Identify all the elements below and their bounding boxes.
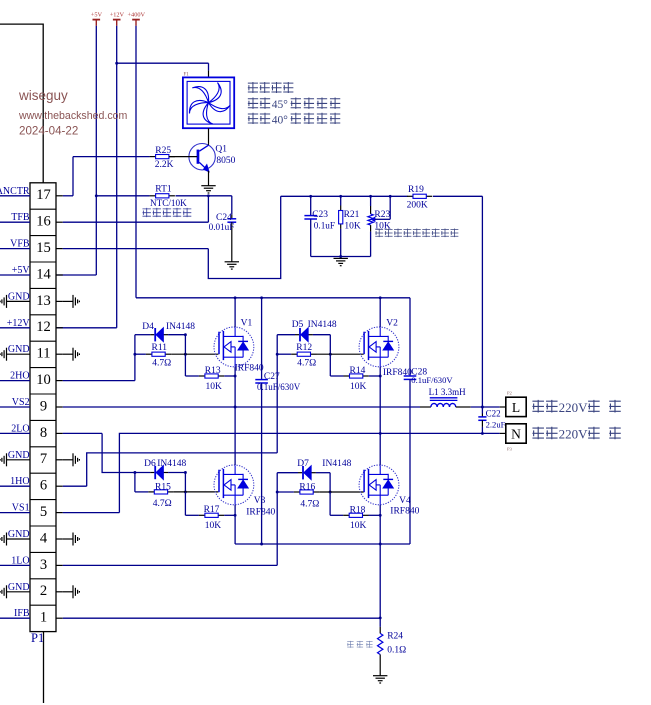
pin lead: [56, 591, 63, 593]
wire segment: [369, 356, 389, 358]
junction: [234, 375, 237, 378]
junction rail: [309, 195, 312, 198]
pin lead: [56, 380, 63, 382]
svg-text:10K: 10K: [350, 382, 367, 392]
wire: [313, 334, 330, 336]
wire segment: [430, 397, 458, 399]
svg-text:D6: D6: [144, 459, 156, 469]
pin lead: [295, 334, 299, 336]
pin lead: [343, 514, 349, 516]
wire +12V rail down: [116, 26, 118, 328]
text chinese: [291, 98, 301, 109]
wire VS1 route: [119, 433, 380, 512]
wire V2 source / V4 drain: [379, 367, 381, 465]
wire V1 drain: [234, 298, 236, 327]
pin lead: [169, 195, 175, 197]
pin lead: [3, 535, 5, 543]
wire segment: [223, 356, 243, 358]
pin lead: [56, 353, 63, 355]
wire: [481, 427, 483, 434]
wire: [135, 334, 150, 336]
text chinese: [609, 400, 621, 413]
pin fan bottom / Q1 collector: [208, 128, 210, 143]
wire segment: [234, 495, 236, 504]
mosfet V2 IRF840: [359, 327, 399, 367]
pin lead: [56, 564, 63, 566]
wire VFB route to divider: [208, 196, 280, 278]
pin lead: [407, 195, 413, 197]
wire segment: [227, 218, 236, 220]
pin lead: [340, 206, 342, 211]
wire segment: [376, 484, 380, 486]
pin lead: [311, 472, 316, 474]
wire: [0, 485, 30, 487]
terminal P2 L output: [506, 397, 526, 416]
junction +5V / RT1: [95, 194, 98, 197]
wire: [135, 491, 148, 493]
wire segment: [379, 485, 381, 495]
wire segment: [30, 208, 56, 210]
pin lead: [56, 617, 63, 619]
junction +12V fan feed: [115, 62, 118, 65]
wire: [409, 379, 411, 544]
pin lead: [336, 260, 345, 262]
svg-text:3: 3: [40, 557, 47, 573]
svg-text:IN4148: IN4148: [322, 459, 351, 469]
wire: [0, 432, 30, 434]
junction: [276, 353, 279, 356]
wire segment: [132, 19, 140, 21]
wire segment: [30, 578, 56, 580]
wire segment: [223, 335, 243, 337]
pin lead: [340, 265, 342, 267]
junction: [184, 490, 187, 493]
pin lead: [338, 262, 343, 264]
svg-text:2.2K: 2.2K: [155, 160, 174, 170]
pin lead: [77, 352, 79, 356]
wire +5V to pin14: [56, 274, 96, 276]
wire VS1 pin5: [63, 512, 120, 514]
pin lead: [7, 300, 31, 302]
wire: [184, 473, 186, 492]
pin lead: [165, 353, 171, 355]
wire segment: [255, 379, 268, 381]
wire: [224, 514, 235, 516]
wire +12V to fan: [117, 62, 209, 64]
wire segment: [430, 399, 458, 401]
wire segment: [135, 20, 137, 26]
inductor L1 3.3mH: [431, 403, 437, 407]
svg-text:8: 8: [40, 425, 47, 441]
svg-text:0.01uF: 0.01uF: [209, 222, 235, 232]
pin lead: [225, 261, 239, 263]
pin lead: [63, 538, 73, 540]
svg-text:R12: R12: [296, 343, 312, 353]
pin lead: [340, 224, 342, 229]
wire: [316, 472, 330, 474]
wire segment: [379, 327, 381, 336]
wire segment: [387, 336, 389, 342]
svg-text:12: 12: [36, 319, 51, 335]
resistor R24 0.1ohm shunt: [378, 633, 383, 654]
wire segment: [242, 350, 244, 357]
wire 2HO riser: [134, 335, 136, 381]
wire: [329, 335, 331, 355]
pin lead: [231, 222, 233, 262]
svg-text:C27: C27: [264, 372, 280, 382]
pin lead: [379, 655, 381, 676]
svg-text:8050: 8050: [216, 156, 235, 166]
pin lead: [500, 406, 506, 408]
wire segment: [387, 474, 389, 480]
wire segment: [218, 332, 220, 355]
wire: [379, 464, 381, 466]
pin lead: [74, 350, 76, 358]
wire segment: [43, 632, 45, 703]
wire segment: [231, 484, 235, 486]
wire segment: [369, 473, 389, 475]
wire segment: [376, 346, 380, 348]
pin lead: [6, 295, 8, 308]
pin lead: [74, 588, 76, 596]
text chinese: [532, 400, 544, 413]
pin lead: [6, 585, 8, 598]
wire segment: [199, 162, 207, 170]
svg-text:P1: P1: [31, 631, 44, 645]
pin lead: [74, 456, 76, 464]
svg-text:R24: R24: [387, 631, 403, 641]
svg-text:+12V: +12V: [110, 12, 125, 19]
wire segment: [30, 340, 56, 342]
junction +400V rail: [234, 296, 237, 299]
wire segment: [199, 145, 208, 151]
wire 2LO route: [102, 433, 150, 472]
wire V4 source: [379, 505, 381, 544]
pin lead: [379, 627, 381, 634]
wire 2HO pin10: [63, 380, 135, 382]
junction: [133, 471, 136, 474]
svg-text:R18: R18: [350, 505, 366, 515]
wire segment: [242, 474, 244, 480]
pin fan top: [208, 71, 210, 78]
svg-text:R11: R11: [152, 343, 168, 353]
wire: [330, 375, 343, 377]
pin Q1 base wire: [169, 156, 197, 158]
wire: [235, 406, 420, 408]
wire segment: [379, 465, 381, 474]
svg-text:GND: GND: [8, 582, 30, 593]
svg-text:GND: GND: [8, 291, 30, 302]
pin lead: [231, 268, 233, 270]
wire: [0, 248, 30, 250]
wire segment: [379, 495, 381, 504]
pin lead: [426, 195, 432, 197]
wire R17 riser: [184, 492, 186, 515]
pin lead: [6, 533, 8, 546]
wire: [0, 564, 30, 566]
pin lead: [163, 472, 168, 474]
pin lead: [0, 459, 1, 461]
wire 1HO pin6: [63, 485, 87, 487]
pin lead: [378, 680, 383, 682]
wire: [409, 298, 411, 376]
wire segment: [30, 472, 56, 474]
pin lead: [294, 491, 300, 493]
junction: [329, 353, 332, 356]
pin lead: [150, 195, 156, 197]
svg-text:+400V: +400V: [128, 12, 146, 19]
svg-text:C22: C22: [486, 409, 501, 419]
svg-text:L1 3.3mH: L1 3.3mH: [429, 387, 466, 397]
wire: [231, 196, 233, 215]
text chinese: [588, 427, 600, 440]
wire segment: [369, 494, 389, 496]
junction: [184, 333, 187, 336]
junction rail: [339, 195, 342, 198]
svg-text:+5V: +5V: [91, 12, 103, 19]
svg-text:4.7Ω: 4.7Ω: [153, 499, 172, 509]
pin lead: [376, 677, 385, 679]
svg-text:200K: 200K: [407, 201, 428, 211]
fan F1: [183, 77, 234, 128]
wire segment: [242, 336, 244, 342]
wire segment: [379, 347, 381, 357]
pin lead: [218, 375, 224, 377]
pin lead: [199, 375, 205, 377]
wire segment: [363, 332, 365, 355]
potentiometer R23 wiper arrow: [371, 217, 375, 221]
svg-text:10K: 10K: [350, 521, 367, 531]
svg-text:13: 13: [36, 293, 51, 309]
wire segment: [387, 350, 389, 357]
svg-text:V1: V1: [241, 319, 253, 329]
pin lead: [334, 257, 348, 259]
wire segment: [222, 469, 224, 498]
wire 1HO route: [87, 453, 278, 486]
wire V3 drain: [234, 407, 236, 465]
pin lead: [56, 248, 63, 250]
wire segment: [368, 469, 370, 498]
pin lead: [456, 406, 471, 408]
junction C22 N row: [481, 432, 484, 435]
wire segment: [404, 378, 417, 380]
pin lead: [3, 588, 5, 596]
svg-text:wiseguy: wiseguy: [18, 88, 68, 103]
svg-text:14: 14: [36, 266, 51, 282]
wire V1 source to VS2: [234, 367, 236, 407]
pin lead: [227, 263, 236, 265]
pin lead: [6, 453, 8, 466]
wire: [340, 229, 342, 257]
svg-text:10: 10: [36, 372, 51, 388]
pin lead: [56, 406, 63, 408]
pin lead: [63, 300, 73, 302]
wire 1HO riser to V2 gate cell: [276, 335, 278, 453]
pin lead: [150, 472, 154, 474]
wire segment: [234, 485, 236, 495]
wire segment: [478, 419, 486, 421]
wire segment: [222, 331, 224, 360]
svg-text:GND: GND: [8, 529, 30, 540]
wire segment: [223, 473, 243, 475]
wire segment: [379, 357, 381, 366]
pin lead: [0, 301, 1, 303]
junction: [329, 491, 332, 494]
wire: [369, 514, 381, 516]
pin lead: [78, 459, 80, 461]
pin lead: [0, 353, 1, 355]
junction rail: [369, 195, 372, 198]
wire: [389, 196, 391, 219]
wire: [277, 334, 295, 336]
wire: [185, 514, 199, 516]
svg-text:V4: V4: [399, 496, 411, 506]
pin lead: [72, 585, 74, 598]
wire V2 drain: [379, 298, 381, 327]
svg-text:NTC/10K: NTC/10K: [150, 198, 187, 208]
pin lead: [78, 301, 80, 303]
wire segment: [304, 218, 317, 220]
pin lead: [7, 459, 31, 461]
pin lead: [63, 459, 73, 461]
wire +12V to pin12: [56, 327, 117, 329]
text chinese: [609, 427, 621, 440]
pin lead: [56, 221, 63, 223]
pin lead: [72, 348, 74, 361]
svg-text:IRF840: IRF840: [235, 364, 264, 374]
wire TFB riser: [207, 196, 209, 222]
wire: [481, 407, 483, 414]
wire: [0, 406, 30, 408]
pin lead: [74, 297, 76, 305]
pin lead: [370, 206, 372, 214]
svg-text:5: 5: [40, 504, 47, 520]
wire R23 wiper: [375, 218, 390, 220]
pin lead: [63, 591, 73, 593]
svg-text:0.1uF/630V: 0.1uF/630V: [257, 382, 301, 392]
pin lead: [344, 375, 350, 377]
pin lead: [1, 590, 3, 594]
svg-text:R16: R16: [299, 483, 315, 493]
svg-text:11: 11: [36, 346, 50, 362]
wire segment: [95, 20, 97, 26]
svg-text:9: 9: [40, 398, 47, 414]
pin V2 gate wire: [317, 353, 364, 355]
svg-text:10K: 10K: [206, 382, 223, 392]
wire +5V to RT1: [96, 195, 149, 197]
wire segment: [30, 235, 56, 237]
svg-text:IRF840: IRF840: [246, 507, 275, 517]
pin lead: [56, 195, 63, 197]
wire IFB pin1: [63, 617, 380, 619]
svg-text:4.7Ω: 4.7Ω: [300, 499, 319, 509]
text sine output voltage adjust: [375, 228, 383, 237]
pin lead: [201, 185, 215, 187]
pin lead: [313, 491, 319, 493]
transistor Q1 8050: [189, 144, 215, 170]
wire segment: [242, 488, 244, 495]
pin lead: [1, 299, 3, 303]
pin lead: [150, 156, 156, 158]
pin lead: [3, 297, 5, 305]
pin lead: [370, 225, 372, 232]
pin lead: [63, 353, 73, 355]
junction: [133, 353, 136, 356]
pin lead: [77, 537, 79, 541]
wire segment: [234, 357, 236, 366]
wire segment: [304, 215, 317, 217]
svg-text:2024-04-22: 2024-04-22: [19, 125, 78, 138]
pin lead: [7, 538, 31, 540]
wire segment: [30, 367, 56, 369]
wire: [185, 375, 199, 377]
wire: [0, 221, 30, 223]
wire segment: [30, 551, 56, 553]
pin lead: [169, 156, 175, 158]
svg-text:7: 7: [40, 451, 47, 467]
pin lead: [72, 533, 74, 546]
wire RT1 right: [176, 195, 232, 197]
text chinese: [532, 427, 544, 440]
svg-text:2: 2: [40, 583, 47, 599]
text cooling-fan title: [248, 82, 258, 93]
wire segment: [30, 393, 56, 395]
pin lead: [77, 299, 79, 303]
pin lead: [218, 514, 224, 516]
wire: [380, 432, 500, 434]
junction VS2: [234, 406, 237, 409]
pin lead: [1, 537, 3, 541]
pin lead: [1, 352, 3, 356]
wire: [433, 195, 482, 197]
pin lead: [0, 591, 1, 593]
pin lead: [74, 535, 76, 543]
pin lead: [56, 432, 63, 434]
junction RT1 node: [207, 194, 210, 197]
svg-text:16: 16: [36, 214, 51, 230]
pin lead: [72, 295, 74, 308]
wire segment: [234, 327, 236, 336]
wire: [330, 514, 343, 516]
junction: [379, 543, 382, 546]
pin lead: [206, 190, 211, 192]
svg-text:N: N: [511, 427, 521, 442]
wire R14 riser: [329, 354, 331, 376]
junction: [379, 375, 382, 378]
pin lead: [77, 590, 79, 594]
svg-text:R15: R15: [155, 483, 171, 493]
wire R25 left: [73, 156, 150, 158]
wire segment: [255, 382, 268, 384]
wire R19 column down to output: [481, 196, 483, 407]
svg-text:IN4148: IN4148: [157, 459, 186, 469]
svg-text:C23: C23: [312, 210, 328, 220]
pin lead: [229, 266, 234, 268]
pin lead: [0, 538, 1, 540]
svg-text:6: 6: [40, 478, 47, 494]
wire to shunt R24: [379, 544, 381, 627]
svg-text:4.7Ω: 4.7Ω: [152, 358, 171, 368]
wire segment: [93, 19, 101, 21]
junction: [276, 491, 279, 494]
svg-text:GND: GND: [8, 344, 30, 355]
wire Q1 emitter to ground: [208, 171, 210, 186]
svg-text:10K: 10K: [205, 521, 222, 531]
wire: [0, 512, 30, 514]
pin lead: [311, 353, 317, 355]
wire segment: [30, 525, 56, 527]
wire bridge source rail: [235, 543, 410, 545]
